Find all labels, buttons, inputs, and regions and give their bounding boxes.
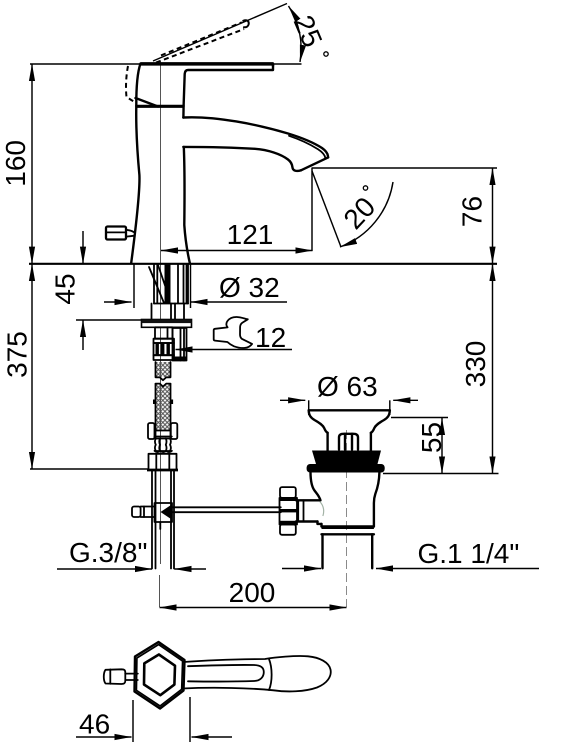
svg-text:375: 375 (1, 331, 32, 378)
svg-text:121: 121 (227, 219, 274, 250)
svg-text:45: 45 (49, 273, 80, 304)
svg-text:76: 76 (456, 196, 487, 227)
svg-text:Ø 63: Ø 63 (317, 371, 378, 402)
svg-text:Ø 32: Ø 32 (219, 272, 280, 303)
svg-text:G.3/8": G.3/8" (69, 537, 147, 568)
svg-text:200: 200 (229, 577, 276, 608)
svg-text:330: 330 (460, 341, 491, 388)
svg-text:160: 160 (0, 140, 31, 187)
svg-text:46: 46 (79, 709, 110, 740)
svg-text:12: 12 (255, 322, 286, 353)
svg-text:55: 55 (416, 422, 447, 453)
svg-text:G.1 1/4": G.1 1/4" (418, 538, 520, 569)
